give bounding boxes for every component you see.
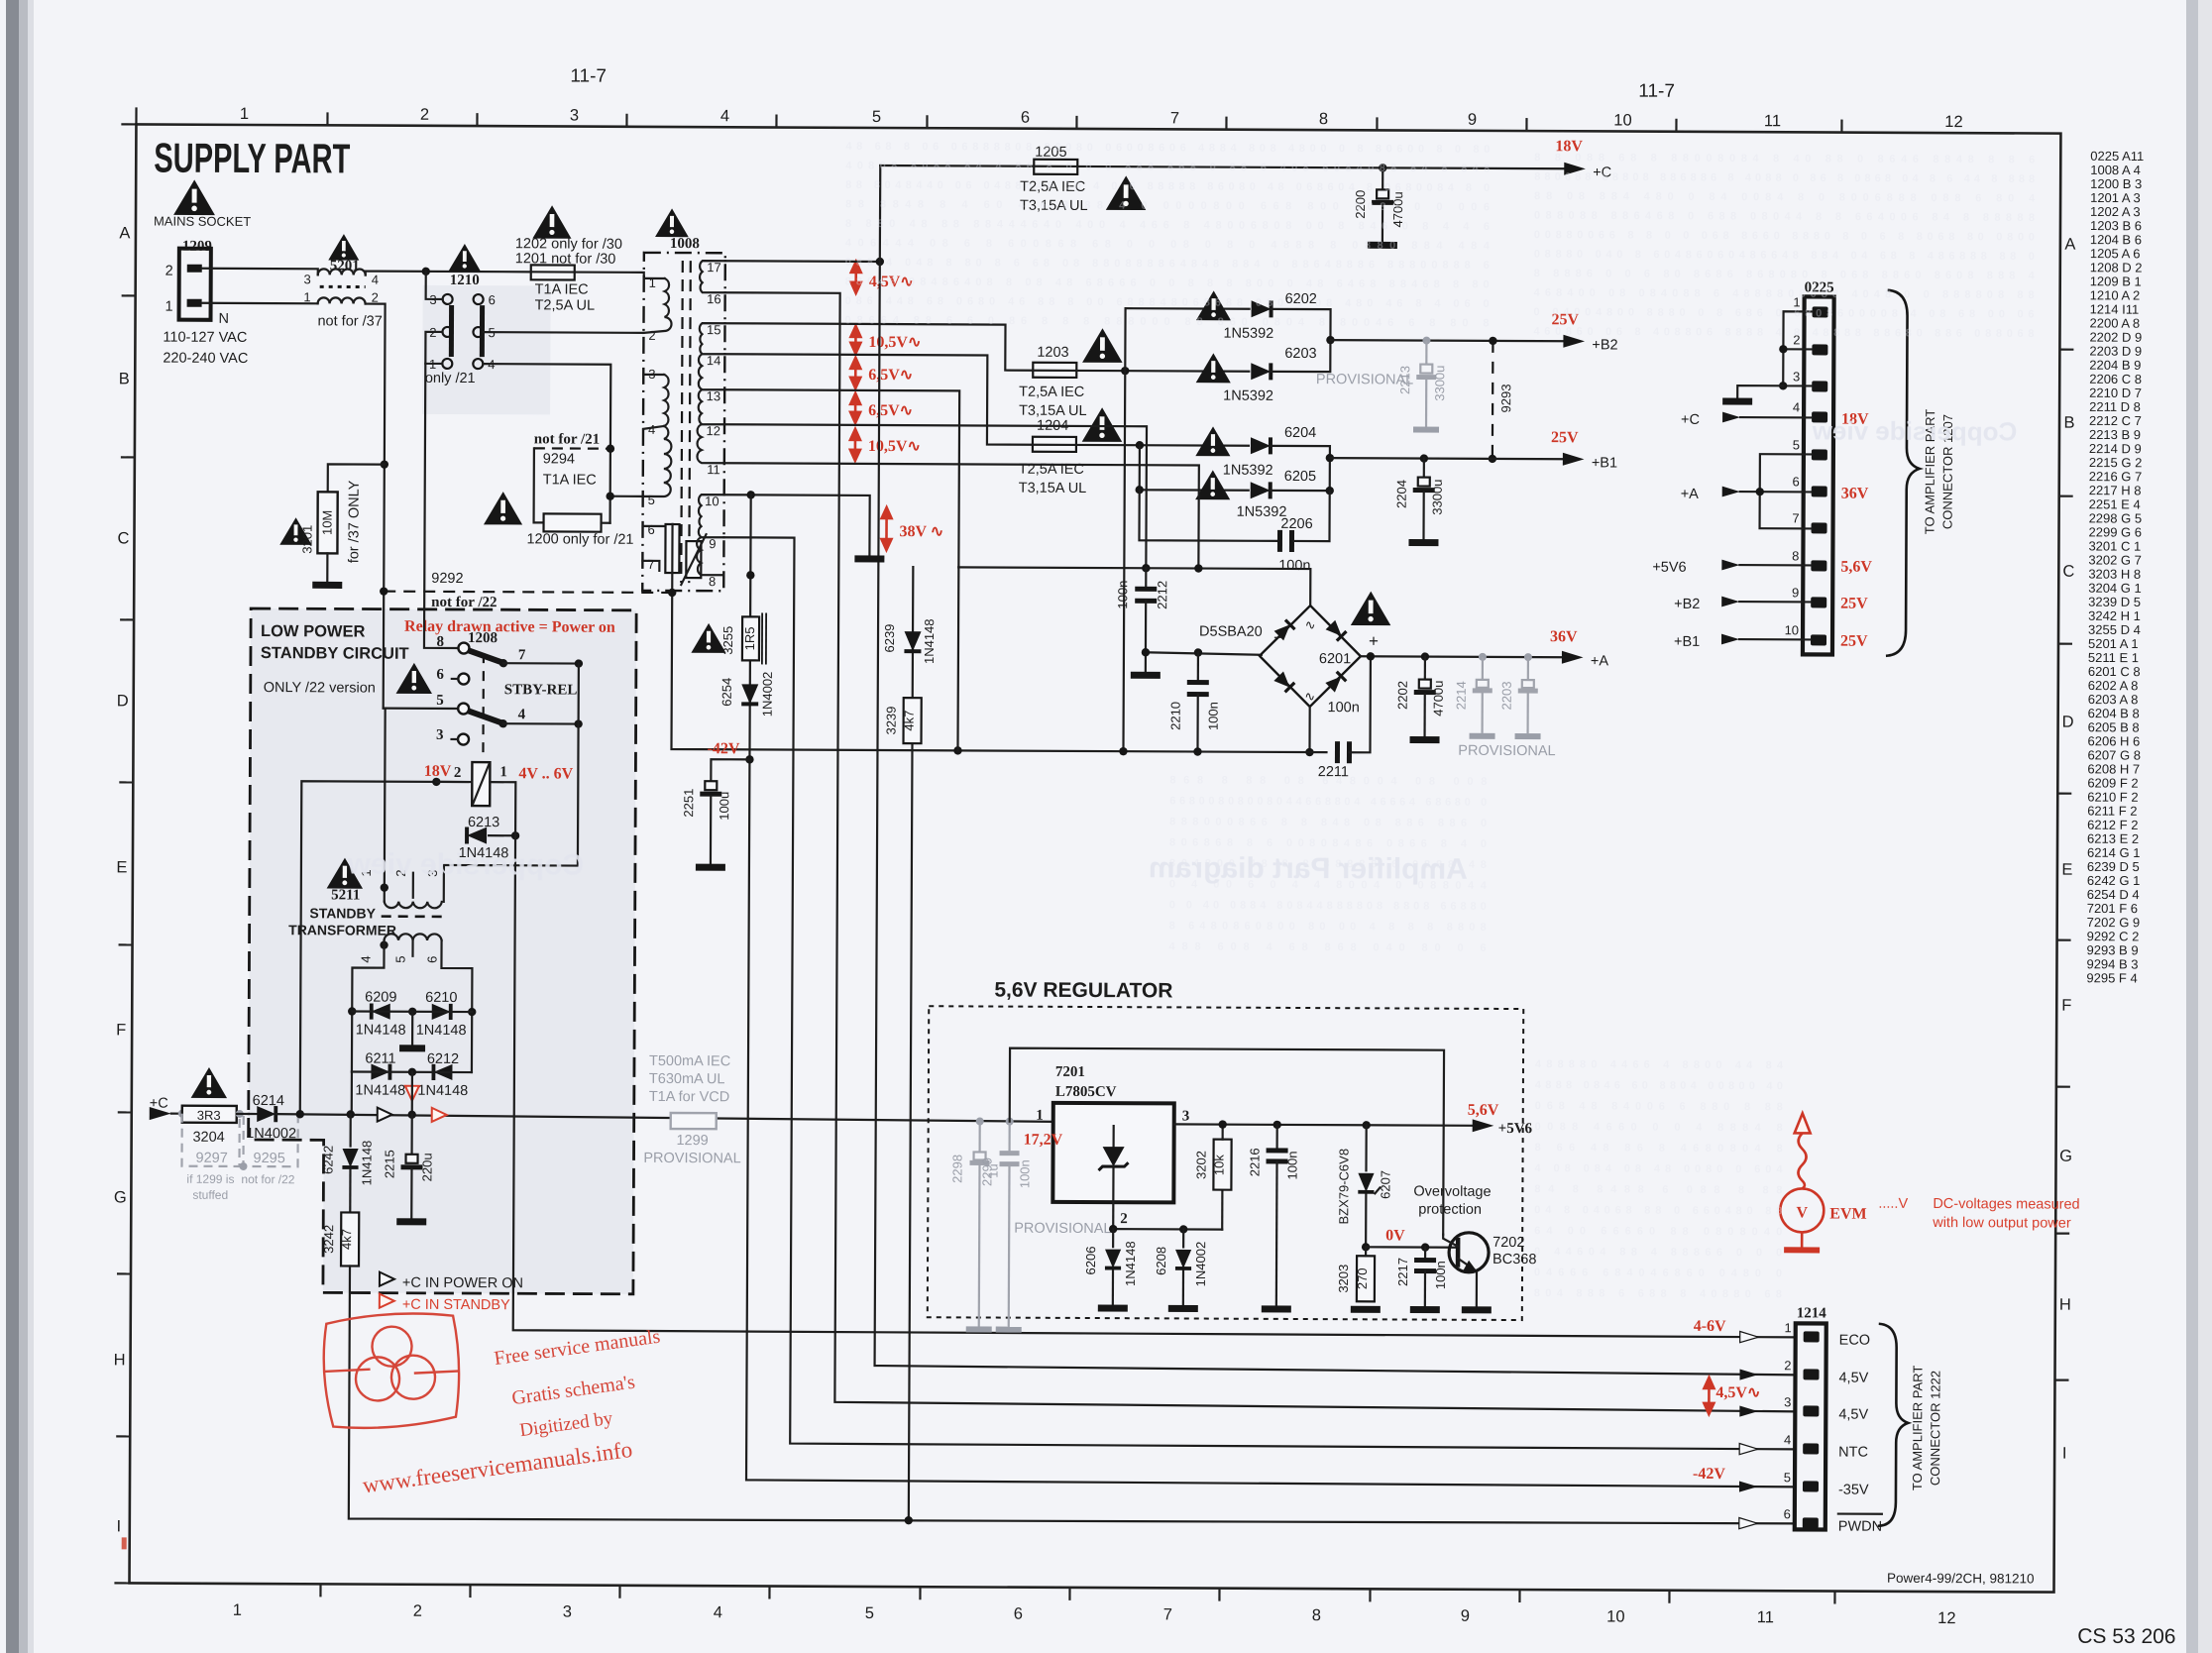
zener inside 7201 bbox=[1113, 1126, 1115, 1147]
svg-text:1214: 1214 bbox=[1797, 1305, 1827, 1321]
svg-text:100n: 100n bbox=[1206, 702, 1221, 730]
svg-text:4: 4 bbox=[358, 955, 373, 962]
marker standby feed bbox=[405, 1086, 419, 1101]
svg-text:2206: 2206 bbox=[1280, 516, 1312, 532]
svg-text:2215: 2215 bbox=[382, 1150, 396, 1178]
wire socket pin2 to inductor bbox=[202, 269, 318, 275]
wire x885 vertical (fuse 1205 feed down to 1214 pin2) bbox=[875, 165, 1802, 1375]
wire 5201 to fuse 1202 (live) bbox=[366, 272, 531, 276]
svg-text:10,5V∿: 10,5V∿ bbox=[868, 438, 921, 455]
inductor 5201 bottom winding bbox=[318, 297, 366, 303]
svg-text:+C IN POWER ON: +C IN POWER ON bbox=[402, 1275, 523, 1292]
diode 6208 1N4002 bbox=[1182, 1229, 1184, 1247]
jumper 9295 box bbox=[243, 1116, 297, 1166]
node tap8 bbox=[746, 571, 754, 579]
svg-text:F: F bbox=[116, 1021, 126, 1039]
warning triangle (1203) bbox=[1082, 328, 1123, 363]
svg-text:D: D bbox=[2062, 714, 2074, 731]
jumper 9293 dashed bbox=[1492, 341, 1494, 459]
svg-text:9295: 9295 bbox=[253, 1151, 284, 1166]
svg-text:1N4148: 1N4148 bbox=[356, 1023, 406, 1039]
svg-text:7202: 7202 bbox=[1493, 1235, 1524, 1251]
svg-text:CONNECTOR 1222: CONNECTOR 1222 bbox=[1928, 1371, 1943, 1486]
svg-text:+B1: +B1 bbox=[1674, 634, 1700, 650]
svg-text:PWDN: PWDN bbox=[1838, 1519, 1882, 1535]
svg-text:5,6V: 5,6V bbox=[1840, 559, 1872, 576]
svg-text:D: D bbox=[117, 692, 129, 710]
warning triangle (6201) bbox=[1351, 591, 1391, 625]
svg-text:H: H bbox=[114, 1351, 126, 1369]
svg-text:100n: 100n bbox=[1328, 700, 1360, 716]
diode 6206 1N4148 bbox=[1112, 1229, 1114, 1247]
wire neutral down bbox=[364, 304, 386, 709]
svg-text:11-7: 11-7 bbox=[1638, 81, 1675, 102]
svg-text:1N4148: 1N4148 bbox=[417, 1083, 468, 1099]
svg-text:+A: +A bbox=[1681, 487, 1700, 502]
svg-text:66800808008044668804 46664 68: 66800808008044668804 46664 68680 0 bbox=[1169, 795, 1487, 809]
svg-text:Power4-99/2CH, 981210: Power4-99/2CH, 981210 bbox=[1887, 1571, 2035, 1587]
IC 7201 box bbox=[1052, 1103, 1173, 1203]
marker +C power-on (on wire) bbox=[378, 1108, 392, 1122]
svg-text:4-6V: 4-6V bbox=[1694, 1318, 1726, 1335]
wire 6204/6205 join bbox=[1271, 446, 1330, 491]
wire tap17 to bus x885 bbox=[725, 260, 880, 263]
svg-text:5211 E 1: 5211 E 1 bbox=[2088, 650, 2139, 665]
svg-text:3300u: 3300u bbox=[1430, 480, 1445, 515]
svg-text:6: 6 bbox=[1784, 1506, 1791, 1521]
svg-text:8: 8 bbox=[1319, 110, 1328, 128]
svg-text:if 1299 is: if 1299 is bbox=[186, 1172, 234, 1186]
svg-text:+5V6: +5V6 bbox=[1498, 1121, 1533, 1137]
wire tap16 down (to 1214 pin3) bbox=[719, 292, 1800, 1411]
ground (0225 pin3) bbox=[1737, 386, 1783, 398]
svg-text:2202: 2202 bbox=[1395, 681, 1410, 710]
svg-text:2299: 2299 bbox=[979, 1157, 994, 1186]
svg-text:1N5392: 1N5392 bbox=[1237, 504, 1287, 520]
capacitor 2200 4700u bbox=[1382, 167, 1383, 189]
svg-text:10: 10 bbox=[1606, 1607, 1624, 1625]
svg-text:6205: 6205 bbox=[1284, 469, 1316, 485]
grid numbers bottom bbox=[233, 1601, 1956, 1627]
svg-text:9: 9 bbox=[1792, 585, 1799, 600]
svg-text:9295 F 4: 9295 F 4 bbox=[2086, 970, 2137, 985]
svg-text:3202 G 7: 3202 G 7 bbox=[2088, 552, 2142, 567]
fuse 1202 bbox=[531, 265, 575, 279]
svg-text:1: 1 bbox=[165, 299, 172, 315]
svg-text:3300u: 3300u bbox=[1432, 366, 1447, 401]
svg-text:2214 D 9: 2214 D 9 bbox=[2089, 441, 2142, 456]
node 6242 bbox=[347, 1110, 355, 1118]
svg-text:E: E bbox=[2061, 861, 2072, 879]
svg-text:1N5392: 1N5392 bbox=[1223, 463, 1273, 479]
capacitor 2202 4700u bbox=[1421, 652, 1429, 660]
svg-text:PROVISIONAL: PROVISIONAL bbox=[1316, 372, 1413, 387]
svg-text:STBY-REL: STBY-REL bbox=[504, 682, 578, 698]
svg-text:38V ∿: 38V ∿ bbox=[899, 523, 943, 540]
capacitor 2299 100n provisional bbox=[1006, 1118, 1014, 1126]
svg-text:protection: protection bbox=[1418, 1202, 1482, 1218]
svg-text:SUPPLY PART: SUPPLY PART bbox=[154, 135, 350, 182]
svg-text:12: 12 bbox=[1937, 1609, 1955, 1627]
svg-text:6207: 6207 bbox=[1378, 1170, 1392, 1199]
resistor 3239 4k7 bbox=[904, 698, 922, 743]
svg-text:3204: 3204 bbox=[192, 1130, 224, 1146]
+B1 rail bbox=[1330, 458, 1566, 459]
svg-text:3239 D 5: 3239 D 5 bbox=[2088, 595, 2141, 609]
svg-text:2217 H 8: 2217 H 8 bbox=[2089, 483, 2142, 497]
svg-text:6,5V∿: 6,5V∿ bbox=[868, 367, 913, 384]
svg-text:ONLY /22 version: ONLY /22 version bbox=[264, 680, 376, 697]
switch 1210 contacts bbox=[442, 294, 483, 369]
svg-text:9293 B 9: 9293 B 9 bbox=[2087, 942, 2139, 957]
svg-text:1299: 1299 bbox=[676, 1133, 708, 1149]
svg-text:3: 3 bbox=[1182, 1108, 1190, 1124]
wire fuse 1203 to diodes bbox=[1076, 370, 1249, 373]
legend marker power on bbox=[380, 1272, 394, 1286]
svg-text:Copperside view: Copperside view bbox=[1812, 415, 2018, 446]
transformer 1008 core bbox=[681, 261, 683, 583]
svg-text:11: 11 bbox=[1764, 112, 1781, 130]
svg-text:1214 I11: 1214 I11 bbox=[2090, 301, 2140, 316]
wire pin2 rail bbox=[1113, 1228, 1222, 1231]
svg-text:−: − bbox=[1273, 628, 1283, 647]
svg-text:6: 6 bbox=[424, 956, 439, 963]
svg-text:H: H bbox=[2059, 1296, 2071, 1314]
svg-text:4: 4 bbox=[518, 707, 526, 722]
svg-text:0225: 0225 bbox=[1805, 279, 1834, 295]
18V riser from +C wire bbox=[300, 781, 469, 1115]
svg-text:13: 13 bbox=[707, 388, 721, 403]
svg-text:C: C bbox=[117, 529, 129, 547]
svg-text:G: G bbox=[2059, 1148, 2072, 1165]
svg-text:6213: 6213 bbox=[468, 815, 499, 830]
svg-text:+A: +A bbox=[1591, 653, 1609, 669]
wire fuse1205 to +C bbox=[1077, 166, 1567, 168]
svg-text:A: A bbox=[2064, 236, 2075, 254]
svg-text:T1A for VCD: T1A for VCD bbox=[649, 1089, 729, 1105]
svg-text:2206 C 8: 2206 C 8 bbox=[2089, 372, 2142, 386]
svg-text:2214: 2214 bbox=[1454, 681, 1469, 710]
svg-text:3: 3 bbox=[436, 727, 444, 743]
svg-text:6: 6 bbox=[1793, 474, 1800, 489]
svg-text:V: V bbox=[1796, 1204, 1808, 1221]
svg-text:1200 only for /21: 1200 only for /21 bbox=[526, 531, 633, 548]
svg-text:17,2V: 17,2V bbox=[1024, 1132, 1063, 1149]
svg-text:6242: 6242 bbox=[320, 1146, 335, 1174]
wire diode row2 bbox=[352, 1070, 472, 1073]
svg-text:6210 F 2: 6210 F 2 bbox=[2087, 790, 2138, 805]
svg-text:25V: 25V bbox=[1840, 596, 1868, 612]
top ticks bbox=[327, 112, 1841, 132]
wire 3242 down to PWDN bbox=[349, 1266, 1796, 1525]
svg-text:2212 C 7: 2212 C 7 bbox=[2089, 413, 2142, 428]
svg-text:6,5V∿: 6,5V∿ bbox=[868, 402, 913, 419]
wire socket pin1 to inductor bbox=[202, 302, 318, 305]
svg-text:1202 A 3: 1202 A 3 bbox=[2090, 204, 2141, 219]
svg-text:.....V: .....V bbox=[1878, 1196, 1908, 1212]
svg-text:6239: 6239 bbox=[882, 624, 897, 653]
warning triangle (1205) bbox=[1106, 175, 1147, 210]
svg-text:1205 A 6: 1205 A 6 bbox=[2090, 246, 2141, 261]
watermark logo bbox=[321, 1311, 462, 1430]
arrowheads into 1214 bbox=[1740, 1332, 1759, 1343]
svg-text:STANDBY CIRCUIT: STANDBY CIRCUIT bbox=[261, 644, 409, 663]
svg-text:1008 A 4: 1008 A 4 bbox=[2090, 163, 2141, 177]
svg-text:6208 H 7: 6208 H 7 bbox=[2087, 761, 2140, 776]
svg-text:T2,5A IEC: T2,5A IEC bbox=[1019, 385, 1084, 400]
svg-text:1: 1 bbox=[303, 289, 310, 304]
svg-text:10: 10 bbox=[705, 494, 719, 508]
base wire bbox=[1362, 1243, 1370, 1251]
svg-text:10: 10 bbox=[1613, 111, 1631, 129]
svg-text:1N4148: 1N4148 bbox=[1123, 1241, 1138, 1286]
secondary left lead bbox=[352, 939, 385, 1071]
svg-text:∿: ∿ bbox=[1304, 689, 1315, 704]
jumper 9297 box bbox=[181, 1114, 239, 1166]
svg-text:T1A IEC: T1A IEC bbox=[535, 281, 589, 297]
svg-text:5: 5 bbox=[872, 108, 881, 126]
svg-text:9292: 9292 bbox=[431, 571, 463, 587]
svg-text:+5V6: +5V6 bbox=[1652, 560, 1686, 576]
svg-text:3242: 3242 bbox=[321, 1225, 336, 1254]
svg-text:9: 9 bbox=[709, 536, 716, 551]
connector 1214 body bbox=[1795, 1323, 1826, 1529]
C-bus bbox=[958, 567, 1310, 606]
brace (0225) bbox=[1886, 290, 1921, 656]
collector bypass wire bbox=[1009, 1048, 1444, 1235]
node (neutral/3201) bbox=[381, 460, 388, 468]
warning triangle (fuse 1202) bbox=[532, 205, 571, 239]
svg-text:2: 2 bbox=[372, 290, 379, 305]
mains socket 1209 bbox=[179, 249, 211, 320]
svg-text:1210 A 2: 1210 A 2 bbox=[2090, 287, 2141, 302]
warning triangle (standby) bbox=[396, 663, 433, 694]
svg-text:2203 D 9: 2203 D 9 bbox=[2089, 344, 2142, 359]
red arrow 4,5V (1214) bbox=[1704, 1377, 1714, 1414]
svg-text:100n: 100n bbox=[1017, 1159, 1032, 1188]
ground (3201) bbox=[312, 584, 342, 586]
svg-text:8 8886 0 0 6 80 8686 86808: 8 8886 0 0 6 80 8686 868080 8 068 8860 8… bbox=[1534, 268, 2036, 281]
svg-text:12: 12 bbox=[1944, 113, 1962, 131]
svg-text:DC-voltages measured: DC-voltages measured bbox=[1933, 1196, 2079, 1213]
svg-text:6210: 6210 bbox=[425, 990, 457, 1006]
svg-text:36V: 36V bbox=[1550, 628, 1578, 645]
diode 6203 1N5392 bbox=[1251, 363, 1271, 380]
svg-text:2202 D 9: 2202 D 9 bbox=[2089, 330, 2142, 345]
svg-text:15: 15 bbox=[707, 322, 721, 337]
wire neutral to 3201 bbox=[328, 464, 385, 492]
svg-text:1R5: 1R5 bbox=[742, 626, 757, 650]
svg-text:1208: 1208 bbox=[468, 630, 498, 646]
warning triangle (1200) bbox=[484, 492, 522, 525]
warning triangle (3201) bbox=[279, 517, 312, 545]
svg-text:100u: 100u bbox=[717, 792, 731, 821]
svg-text:1202 only for /30: 1202 only for /30 bbox=[515, 236, 622, 253]
standby transformer primary bbox=[385, 902, 442, 909]
svg-text:4: 4 bbox=[720, 107, 729, 125]
svg-text:17: 17 bbox=[707, 260, 721, 275]
wire neutral down to relay contact 5 bbox=[384, 708, 459, 711]
svg-text:110-127 VAC: 110-127 VAC bbox=[163, 330, 247, 346]
svg-text:1200 B 3: 1200 B 3 bbox=[2090, 176, 2142, 191]
svg-text:10,5V∿: 10,5V∿ bbox=[868, 334, 921, 351]
diode row 6209 bbox=[348, 1007, 356, 1015]
svg-text:1203: 1203 bbox=[1037, 345, 1068, 361]
svg-text:PROVISIONAL: PROVISIONAL bbox=[1014, 1221, 1111, 1237]
-42V chain vertical x756 bbox=[746, 495, 1800, 1487]
capacitor 2206 100n bbox=[1139, 490, 1277, 541]
connector 0225 body bbox=[1803, 296, 1834, 654]
svg-text:2: 2 bbox=[166, 264, 173, 279]
svg-text:2204: 2204 bbox=[1394, 480, 1409, 508]
svg-text:1: 1 bbox=[240, 105, 249, 123]
standby transformer core bbox=[382, 915, 446, 918]
transformer 1008 box bbox=[642, 253, 725, 591]
svg-text:1N4148: 1N4148 bbox=[416, 1023, 467, 1039]
warning triangle (G row) bbox=[191, 1067, 228, 1098]
node (neutral/9292) bbox=[380, 587, 387, 595]
warning triangle (6202) bbox=[1196, 290, 1231, 320]
svg-text:∿: ∿ bbox=[1305, 617, 1316, 632]
regulator dashed box bbox=[928, 1006, 1523, 1320]
svg-text:9294: 9294 bbox=[543, 451, 575, 467]
svg-text:4: 4 bbox=[372, 273, 379, 287]
svg-text:4,5V: 4,5V bbox=[1838, 1407, 1868, 1423]
diode 6202 1N5392 bbox=[1252, 300, 1272, 317]
relay contact 5 bbox=[458, 703, 469, 714]
svg-text:T630mA UL: T630mA UL bbox=[649, 1071, 725, 1087]
svg-text:2200 A 8: 2200 A 8 bbox=[2089, 315, 2140, 330]
svg-text:1N5392: 1N5392 bbox=[1223, 388, 1273, 404]
svg-text:2213 B 9: 2213 B 9 bbox=[2089, 427, 2141, 442]
svg-text:4k7: 4k7 bbox=[339, 1229, 354, 1250]
svg-text:6206 H 6: 6206 H 6 bbox=[2088, 733, 2141, 748]
warning triangle (6204) bbox=[1195, 426, 1230, 456]
connector 1214 pins bbox=[1803, 1331, 1820, 1528]
svg-text:6204 B 8: 6204 B 8 bbox=[2088, 706, 2140, 720]
svg-text:3239: 3239 bbox=[884, 707, 899, 735]
svg-text:stuffed: stuffed bbox=[192, 1188, 228, 1202]
resistor 3202 10k bbox=[1221, 1190, 1223, 1230]
svg-text:T3,15A UL: T3,15A UL bbox=[1019, 403, 1087, 419]
svg-text:B: B bbox=[2064, 414, 2075, 432]
diode row 6210 bbox=[408, 1008, 416, 1016]
fuse 1299 provisional bbox=[671, 1113, 717, 1129]
NTC line tap9 down bbox=[719, 537, 1799, 1449]
svg-text:100n: 100n bbox=[1433, 1261, 1448, 1289]
svg-text:9293: 9293 bbox=[1498, 384, 1513, 412]
pin2 of 7201 bbox=[1112, 1202, 1114, 1229]
red corner mark bbox=[122, 1537, 127, 1549]
resistor 3203 270 bbox=[1357, 1256, 1375, 1301]
secondary right lead bbox=[441, 940, 473, 1072]
svg-text:12: 12 bbox=[706, 423, 720, 438]
svg-text:Overvoltage: Overvoltage bbox=[1413, 1184, 1491, 1200]
wire rectifier mid down to +C rail bbox=[411, 1072, 413, 1115]
svg-text:5: 5 bbox=[1793, 437, 1800, 452]
standby box fill (under) bbox=[248, 608, 636, 1294]
svg-text:4,5V: 4,5V bbox=[1838, 1371, 1868, 1386]
warning triangle (mains socket) bbox=[173, 179, 215, 215]
svg-text:+B2: +B2 bbox=[1592, 337, 1617, 353]
svg-text:1201 A 3: 1201 A 3 bbox=[2090, 190, 2141, 205]
wire tap14 to fuse 1204 bbox=[724, 354, 1033, 444]
svg-text:10k: 10k bbox=[1211, 1155, 1226, 1176]
svg-text:7: 7 bbox=[518, 647, 526, 663]
svg-text:1: 1 bbox=[1036, 1108, 1044, 1124]
svg-text:2: 2 bbox=[413, 1602, 422, 1620]
relay rail to standby transformer bbox=[444, 663, 579, 903]
capacitor 2251 100u bbox=[711, 759, 749, 781]
relay linkage dashed bbox=[482, 653, 485, 758]
svg-text:2251: 2251 bbox=[681, 789, 696, 818]
svg-text:BZX79-C6V8: BZX79-C6V8 bbox=[1336, 1149, 1351, 1225]
svg-text:36V: 36V bbox=[1841, 486, 1869, 502]
svg-text:1204 B 6: 1204 B 6 bbox=[2090, 232, 2142, 247]
svg-text:+B2: +B2 bbox=[1674, 597, 1700, 612]
diode 6239 1N4148 bbox=[904, 631, 921, 651]
capacitor 2210 100n bbox=[1197, 653, 1199, 683]
svg-text:1209 B 1: 1209 B 1 bbox=[2090, 274, 2142, 288]
svg-text:1N4148: 1N4148 bbox=[359, 1141, 374, 1186]
bottom ticks bbox=[320, 1584, 1834, 1603]
svg-text:NTC: NTC bbox=[1838, 1445, 1868, 1461]
page edge shadows bbox=[6, 0, 19, 1653]
svg-text:1008: 1008 bbox=[670, 236, 700, 252]
zener 6207 BZX79-C6V8 bbox=[1362, 1121, 1370, 1129]
svg-text:2215 G 2: 2215 G 2 bbox=[2089, 455, 2143, 470]
svg-text:3: 3 bbox=[303, 272, 310, 286]
svg-text:L7805CV: L7805CV bbox=[1055, 1084, 1117, 1100]
svg-text:3: 3 bbox=[563, 1603, 572, 1621]
svg-text:4V .. 6V: 4V .. 6V bbox=[518, 765, 573, 782]
svg-text:9: 9 bbox=[1461, 1607, 1470, 1625]
svg-text:2251 E 4: 2251 E 4 bbox=[2089, 496, 2141, 511]
+A rail from bridge bbox=[1361, 655, 1565, 658]
capacitor 2215 220u bbox=[410, 1115, 412, 1155]
svg-text:18V: 18V bbox=[424, 763, 452, 780]
connector 0225 pins bbox=[1811, 306, 1828, 645]
svg-text:5: 5 bbox=[1784, 1470, 1791, 1485]
left ticks bbox=[116, 295, 135, 1436]
svg-text:for /37 ONLY: for /37 ONLY bbox=[346, 480, 362, 563]
svg-text:8: 8 bbox=[1312, 1606, 1321, 1624]
svg-text:00880066 8 8 0 0 068 8660: 00880066 8 8 0 0 068 8660 8880 8 0 6 8 8… bbox=[1534, 229, 2035, 243]
svg-text:2: 2 bbox=[454, 765, 462, 781]
svg-text:11: 11 bbox=[1757, 1608, 1774, 1626]
right ticks bbox=[2055, 350, 2074, 1380]
svg-text:6208: 6208 bbox=[1154, 1247, 1168, 1275]
svg-text:5: 5 bbox=[392, 955, 407, 962]
brace (1214) bbox=[1878, 1324, 1909, 1526]
PWDN sense line x920 bbox=[909, 567, 914, 1520]
red winding voltage arrows bbox=[849, 262, 892, 550]
svg-text:6202 A 8: 6202 A 8 bbox=[2088, 678, 2139, 693]
warning triangle (1204) bbox=[1082, 407, 1123, 442]
svg-text:3203 H 8: 3203 H 8 bbox=[2088, 567, 2141, 582]
svg-text:E: E bbox=[116, 858, 127, 876]
standby transformer secondary bbox=[385, 934, 442, 940]
svg-text:4700u: 4700u bbox=[1431, 681, 1446, 716]
svg-text:1203 B 6: 1203 B 6 bbox=[2090, 218, 2142, 233]
svg-text:7: 7 bbox=[647, 557, 654, 572]
svg-text:3255: 3255 bbox=[720, 626, 735, 655]
warning triangle (6205) bbox=[1195, 470, 1230, 499]
svg-text:1N4002: 1N4002 bbox=[1193, 1242, 1208, 1287]
svg-text:0225 A11: 0225 A11 bbox=[2090, 149, 2144, 164]
svg-text:STANDBY: STANDBY bbox=[309, 905, 376, 921]
inductor 5201 top winding bbox=[318, 269, 366, 275]
